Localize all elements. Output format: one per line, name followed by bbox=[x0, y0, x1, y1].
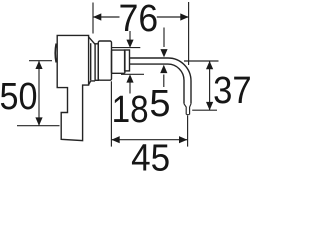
arrowhead 76 right bbox=[180, 13, 188, 20]
arrowhead 76 left bbox=[93, 13, 101, 20]
dim 37 top extension line bbox=[184, 60, 219, 62]
pipe inner edge (bottom + bend inner + left wall) bbox=[130, 64, 185, 104]
arrowhead 37 down bbox=[206, 102, 213, 110]
svg-text:76: 76 bbox=[119, 0, 159, 40]
cone chamfer top bbox=[89, 37, 96, 45]
dim 45 line bbox=[111, 139, 187, 141]
dim 76 left extension line bbox=[92, 3, 94, 34]
arrowhead 18 up (lower) bbox=[126, 74, 133, 82]
dim 45 right extension line (nozzle centerline) bbox=[187, 115, 189, 146]
pipe outer edge (top + bend outer + right wall) bbox=[130, 58, 192, 104]
nozzle tip bottom bbox=[186, 114, 189, 116]
svg-text:50: 50 bbox=[0, 76, 38, 118]
dim 76 right extension line bbox=[188, 2, 190, 65]
dim 76 line bbox=[93, 16, 189, 18]
dim 18 lower arrow shaft bbox=[129, 81, 131, 94]
body (main housing with mounting bracket step) bbox=[57, 35, 88, 140]
dim 5 lower arrow shaft bbox=[163, 75, 165, 88]
svg-text:37: 37 bbox=[213, 70, 250, 112]
dim 18 bottom extension line bbox=[121, 73, 144, 75]
arrowhead 50 up bbox=[35, 61, 42, 69]
svg-text:45: 45 bbox=[131, 138, 170, 171]
dim 50 line bbox=[38, 61, 40, 126]
arrowhead 37 up bbox=[206, 61, 213, 69]
flange bbox=[98, 41, 111, 80]
dim 37 line bbox=[209, 61, 211, 110]
nut bbox=[112, 50, 125, 73]
cone inner line bbox=[90, 43, 92, 80]
dim 18 upper arrow shaft bbox=[129, 31, 131, 42]
arrowhead 50 down bbox=[35, 117, 42, 125]
nozzle tip taper and walls bbox=[184, 104, 191, 115]
dim 50 bottom extension line bbox=[17, 125, 60, 127]
washer bbox=[125, 50, 130, 71]
arrowhead 5 down (upper) bbox=[160, 49, 167, 57]
cone bottom step bbox=[89, 81, 96, 85]
arrowhead 5 up (lower) bbox=[160, 65, 167, 73]
dim 18 top extension line bbox=[112, 47, 140, 49]
arrowhead 45 right bbox=[179, 136, 187, 143]
body left edge lens highlight bbox=[54, 44, 57, 63]
svg-text:18: 18 bbox=[112, 89, 149, 131]
svg-text:5: 5 bbox=[149, 83, 170, 125]
ring bbox=[95, 44, 98, 81]
dim 37 bottom extension line bbox=[192, 109, 217, 111]
dim 50 top extension line bbox=[29, 60, 52, 62]
arrowhead 18 down (upper) bbox=[126, 40, 133, 48]
dim 5 upper arrow shaft bbox=[163, 28, 165, 48]
dim 45 left extension line bbox=[110, 81, 112, 146]
arrowhead 45 left bbox=[111, 136, 119, 143]
